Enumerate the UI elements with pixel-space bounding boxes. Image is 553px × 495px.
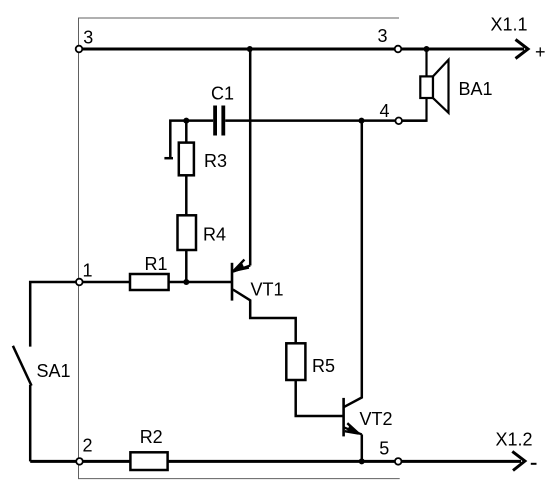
junction top rail at VT1 emitter: [247, 46, 253, 52]
svg-text:R5: R5: [312, 356, 335, 376]
label BA1: [459, 79, 493, 99]
svg-text:1: 1: [83, 261, 93, 281]
label pin 1: [83, 261, 93, 281]
transistor VT2: [344, 121, 362, 462]
label pin 2: [83, 436, 93, 456]
label VT1: [251, 280, 284, 300]
svg-text:X1.1: X1.1: [491, 15, 528, 35]
svg-text:X1.2: X1.2: [496, 430, 533, 450]
terminal pin 3 right: [395, 46, 402, 53]
junction R4 / VT1 base: [183, 279, 189, 285]
connector X1.1 arrow: [516, 40, 529, 59]
svg-text:4: 4: [380, 101, 390, 121]
capacitor C1: [213, 106, 225, 136]
wire: junction node to C1 and R3 tap: [186, 119, 213, 122]
svg-text:R3: R3: [204, 151, 227, 171]
junction VT2 emitter / bottom rail: [359, 458, 365, 464]
svg-text:3: 3: [378, 26, 388, 46]
svg-text:R1: R1: [145, 254, 168, 274]
resistor R5: [286, 343, 305, 380]
terminal pin 4: [395, 118, 402, 125]
transistor VT1: [232, 260, 296, 344]
label SA1: [37, 361, 71, 381]
terminal pin 2: [76, 458, 83, 465]
label + polarity: [535, 42, 546, 62]
svg-text:2: 2: [83, 436, 93, 456]
junction node 4 / VT2 collector: [359, 118, 365, 124]
svg-text:BA1: BA1: [459, 79, 493, 99]
label R1: [145, 254, 168, 274]
wire: VT1 emitter rail from top: [249, 49, 252, 266]
wire: top positive rail from pin 3 to arrow X1.1: [79, 48, 524, 51]
resistor R3: [179, 143, 194, 176]
resistor R3 trimmer tap: [164, 121, 186, 159]
wire: C1 right plate to pin 4 node: [225, 119, 426, 122]
switch SA1: [13, 282, 79, 461]
svg-text:VT1: VT1: [251, 280, 284, 300]
svg-text:C1: C1: [211, 84, 234, 104]
svg-text:3: 3: [83, 28, 93, 48]
label - polarity: [531, 463, 537, 465]
svg-text:5: 5: [379, 439, 389, 459]
label C1: [211, 84, 234, 104]
label X1.1: [491, 15, 528, 35]
junction top rail at speaker: [424, 46, 430, 52]
terminal pin 5: [395, 458, 402, 465]
junction node C1/R3: [183, 118, 189, 124]
svg-text:VT2: VT2: [360, 409, 393, 429]
label R4: [203, 225, 226, 245]
label R2: [140, 427, 163, 447]
label R5: [312, 356, 335, 376]
label VT2: [360, 409, 393, 429]
wire: bottom negative rail to arrow X1.2: [30, 460, 521, 463]
svg-text:R4: R4: [203, 225, 226, 245]
resistor R1: [130, 274, 169, 290]
svg-text:+: +: [535, 42, 546, 62]
svg-text:SA1: SA1: [37, 361, 71, 381]
terminal pin 1: [76, 279, 83, 286]
wire: R5 bottom to VT2 base: [296, 380, 344, 416]
wire: R4 bottom lead to base node: [185, 250, 188, 282]
wire: R3 top lead: [185, 121, 188, 143]
wire: pin1 to R1 to VT1 base: [79, 281, 232, 284]
device boundary frame: [79, 18, 400, 479]
wire: R3 to R4 lead: [185, 175, 188, 215]
resistor R4: [178, 215, 197, 250]
svg-text:R2: R2: [140, 427, 163, 447]
speaker BA1: [402, 49, 449, 121]
label X1.2: [496, 430, 533, 450]
label pin 3 left: [83, 28, 93, 48]
label R3: [204, 151, 227, 171]
label pin 5: [379, 439, 389, 459]
connector X1.2 arrow: [512, 451, 525, 470]
label pin 4: [380, 101, 390, 121]
terminal pin 3 left: [76, 46, 83, 53]
label pin 3 right: [378, 26, 388, 46]
resistor R2: [130, 452, 167, 470]
